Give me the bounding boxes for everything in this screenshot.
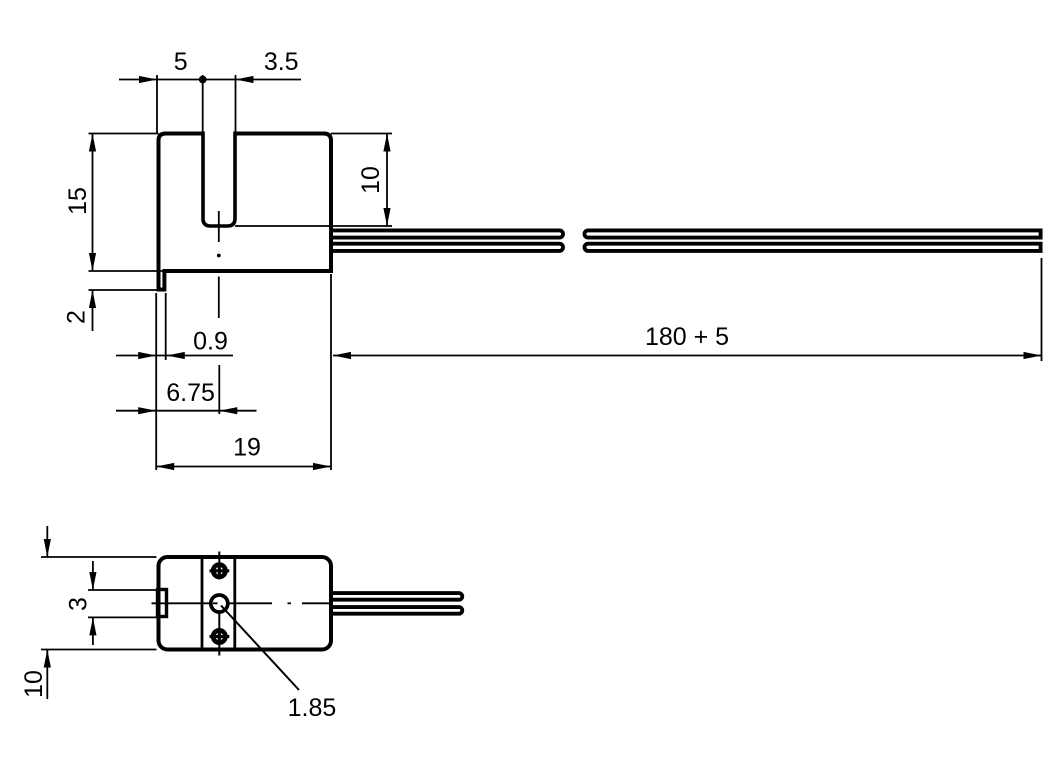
dimension 180 + 5 line — [333, 355, 1042, 357]
leader line 1.85 — [221, 606, 299, 691]
arrowhead left (dim 19) — [156, 463, 174, 470]
arrowhead down (dim 3 top) — [89, 572, 96, 590]
dimension 0.9 — [116, 355, 233, 357]
slot-bottom reference line (extension for dim 10) — [235, 225, 392, 227]
horizontal centerline dash 2 — [228, 602, 273, 604]
dimension line 5 / 3.5 — [119, 79, 301, 81]
arrowhead down — [89, 253, 96, 271]
horizontal centerline dash 3 — [302, 602, 331, 604]
dimension 6.75 — [116, 410, 257, 412]
svg-text:10: 10 — [357, 166, 385, 194]
slot centerline upper segment — [218, 211, 220, 242]
middle hole circle (1.85) — [211, 595, 228, 612]
tab rectangle (side view) — [158, 590, 167, 617]
svg-text:3.5: 3.5 — [264, 48, 299, 76]
arrowhead down (dim 10 side top) — [44, 539, 51, 557]
svg-text:180 + 5: 180 + 5 — [645, 323, 729, 351]
arrowhead left (dim 6.75 right) — [219, 407, 237, 414]
arrowhead left (dim 180+5) — [333, 352, 351, 359]
extension line wire end — [1041, 258, 1043, 361]
arrowhead left at slot right wall — [236, 76, 254, 83]
dimension 10 (side) arrows — [46, 526, 48, 557]
dimension 3 extension bottom — [88, 616, 157, 618]
arrowhead down (dim 10 slot) — [383, 208, 390, 226]
svg-text:19: 19 — [233, 434, 261, 462]
dimension 2 arrow — [92, 290, 94, 331]
dimension 10 (slot depth) line — [386, 134, 388, 227]
horizontal centerline dot — [288, 602, 292, 604]
arrowhead right (dim 0.9 left) — [138, 352, 156, 359]
arrowhead up (dim 3 bottom) — [89, 617, 96, 635]
dimension 3 arrows — [92, 561, 94, 590]
svg-text:1.85: 1.85 — [288, 694, 337, 722]
bottom hole circle — [213, 630, 225, 642]
vertical centerline lower segment — [218, 595, 220, 656]
centerline lower segment — [218, 277, 220, 319]
middle hole horizontal dash — [213, 602, 218, 604]
top hole circle — [213, 565, 225, 577]
top hole horizontal tick — [210, 569, 230, 572]
wire lower capsule segment 2 — [585, 244, 1041, 251]
dimension 10 (side) extension bottom — [41, 649, 157, 651]
arrowhead right (dim 180+5) — [1024, 352, 1042, 359]
arrowhead up (dim 10 slot) — [383, 134, 390, 152]
svg-text:3: 3 — [65, 597, 93, 611]
extension line slot center (dim 6.75) — [218, 365, 220, 414]
bottom hole horizontal tick — [210, 635, 230, 638]
sensor body outline (side view) — [159, 557, 332, 650]
extension line top edge right — [331, 133, 392, 135]
bottom hole vertical tick — [218, 628, 221, 645]
dimension 3 extension top — [88, 589, 157, 591]
extension line left edge vertical — [155, 293, 157, 470]
extension line body bottom left — [89, 270, 164, 272]
arrowhead right (dim 19) — [313, 463, 331, 470]
wire upper capsule segment 2 — [584, 230, 1040, 237]
extension line body right edge vertical — [330, 274, 332, 470]
extension line left edge up — [156, 75, 158, 134]
centerline dot — [217, 254, 221, 258]
side wire capsule upper — [331, 593, 462, 600]
inner line slot wall left — [201, 557, 204, 650]
dimension 19 — [156, 466, 331, 468]
extension line slot right wall up — [235, 75, 237, 134]
svg-text:5: 5 — [174, 48, 188, 76]
sensor body outline (top view) — [159, 134, 332, 290]
slot U-groove — [203, 132, 235, 227]
svg-text:6.75: 6.75 — [166, 379, 215, 407]
svg-text:2: 2 — [63, 310, 91, 324]
inner line slot wall right — [233, 557, 236, 650]
arrowhead up — [89, 134, 96, 152]
extension line tab bottom left — [89, 289, 164, 291]
wire lower capsule segment 1 — [331, 244, 563, 251]
extension line tab right edge — [165, 293, 167, 360]
svg-text:10: 10 — [20, 670, 48, 698]
arrowhead up (dim 2) — [89, 290, 96, 308]
arrowhead left (dim 0.9 right) — [167, 352, 185, 359]
extension line top edge left — [89, 133, 159, 135]
arrowhead right (dim 6.75 left) — [138, 407, 156, 414]
svg-text:15: 15 — [64, 187, 92, 215]
vertical centerline upper segment — [218, 552, 220, 580]
arrowhead up (dim 10 side bottom) — [44, 650, 51, 668]
extension line slot left wall up — [202, 75, 204, 134]
horizontal centerline dash 1 — [152, 602, 212, 604]
side wire capsule lower — [331, 607, 462, 614]
svg-text:0.9: 0.9 — [193, 328, 228, 356]
dimension 15 line — [92, 134, 94, 272]
dimension 10 (side) extension top — [41, 556, 157, 558]
dot at slot left wall — [199, 76, 207, 84]
wire upper capsule segment 1 — [331, 230, 563, 237]
top hole vertical tick — [218, 563, 221, 580]
arrowhead right at left edge — [139, 76, 157, 83]
